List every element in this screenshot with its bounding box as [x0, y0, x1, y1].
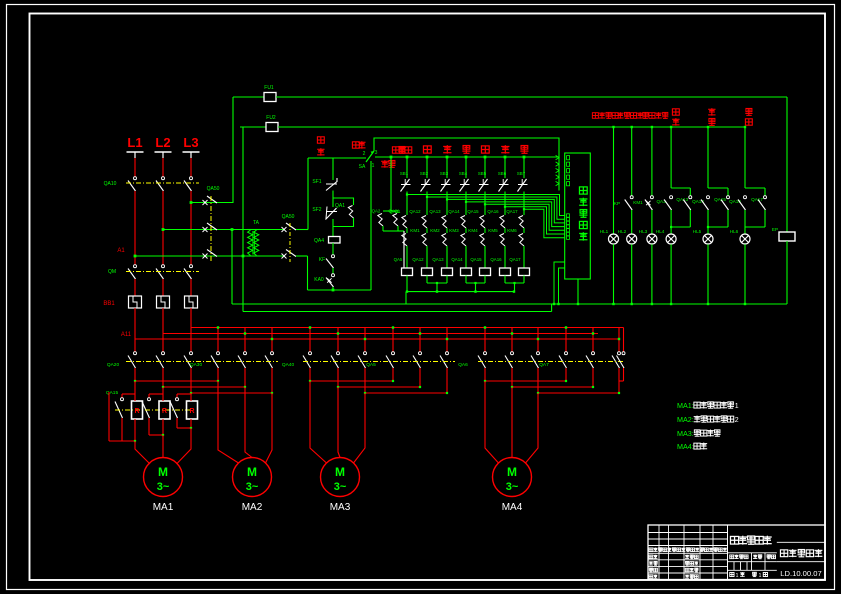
- svg-text:3~: 3~: [506, 481, 519, 493]
- wire MA4 feeds: [485, 381, 499, 463]
- receiver pin labels lower: [567, 214, 570, 217]
- svg-text:KM3: KM3: [449, 228, 459, 233]
- wire chain to SA common: [333, 289, 371, 291]
- svg-text:SA: SA: [359, 164, 366, 170]
- svg-text:EP: EP: [772, 227, 778, 232]
- label da-che: [392, 146, 406, 154]
- svg-text:QA16: QA16: [487, 209, 499, 214]
- node master col1 rail: [406, 156, 409, 159]
- contactor group links: [126, 361, 278, 363]
- label xiao che: [708, 108, 715, 116]
- wire right end branch: [623, 328, 625, 353]
- wire red bus1: [191, 327, 624, 329]
- node tap L1 green: [134, 255, 137, 258]
- title block drawing title: [777, 541, 825, 543]
- wire MA1 feeds: [135, 441, 150, 464]
- label zuo: [462, 146, 470, 154]
- wire to start-stop branch: [296, 229, 308, 231]
- switch QA50b pole2: [282, 254, 287, 259]
- label shang: [501, 145, 509, 153]
- wire red bus3: [135, 338, 619, 340]
- wire coils to bottom bus: [406, 276, 408, 292]
- lamp HL4 branch: [670, 126, 672, 128]
- svg-text:QA5: QA5: [394, 257, 403, 262]
- node rail junction: [557, 303, 559, 305]
- svg-text:L3: L3: [183, 135, 198, 150]
- label yao kong jie shou qi: [579, 187, 587, 241]
- lamp HL6 branch: [744, 126, 746, 128]
- title block left grid: [658, 525, 660, 580]
- wire top rail from FU1: [276, 96, 787, 98]
- switch QA50b link: [289, 223, 291, 262]
- node master col6 rail: [504, 156, 507, 159]
- node tap L2 green: [162, 228, 165, 231]
- switch QA50 pole1: [203, 200, 208, 205]
- wire rails to QA50b: [260, 229, 283, 231]
- receiver box: [565, 153, 591, 279]
- svg-text:3~: 3~: [157, 481, 170, 493]
- resistor R1: [132, 401, 143, 419]
- motor MA2: [233, 458, 272, 497]
- svg-text:M: M: [507, 465, 517, 479]
- svg-text:FU2: FU2: [266, 115, 276, 121]
- wire mesh G1-G2: [134, 375, 136, 381]
- svg-text:QA50: QA50: [282, 214, 295, 220]
- svg-text:FU1: FU1: [264, 85, 274, 91]
- switch QA50 pole2: [203, 227, 208, 232]
- svg-text:QA10: QA10: [104, 181, 117, 187]
- wire phases QA10 to QM: [134, 191, 136, 265]
- svg-text:TA: TA: [253, 220, 260, 226]
- svg-text:HL3: HL3: [639, 229, 648, 234]
- wire QM to BB1: [134, 279, 136, 296]
- svg-text:1: 1: [759, 573, 762, 579]
- switch QA50 pole3: [203, 254, 208, 259]
- motor MA4: [493, 458, 532, 497]
- contact lower row: [422, 234, 427, 247]
- receiver lower output pins: [554, 262, 565, 304]
- wire master rail: [375, 156, 559, 158]
- svg-text:QA15: QA15: [467, 209, 479, 214]
- title block mid cells: [728, 552, 777, 554]
- label dian-yuan-zhi-shi: [592, 112, 618, 119]
- contact lower row: [402, 234, 407, 247]
- svg-text:QM: QM: [108, 269, 116, 275]
- svg-text:KM2: KM2: [430, 228, 440, 233]
- svg-text:3~: 3~: [334, 481, 347, 493]
- svg-text:L1: L1: [127, 135, 142, 150]
- contact lower row: [442, 234, 447, 247]
- wire TA left drop2 to rail2: [242, 255, 245, 258]
- wire SF2 to coil: [332, 219, 334, 237]
- svg-text:QA13: QA13: [429, 209, 441, 214]
- svg-text:M: M: [247, 465, 257, 479]
- wire receiver bottom to rail: [577, 279, 579, 304]
- wire TA left drop to bottom rail: [231, 228, 234, 231]
- svg-text:QA7: QA7: [539, 362, 549, 368]
- lamp HL2 branch: [631, 126, 633, 128]
- wire chain bottom: [332, 287, 334, 290]
- wire columns to lower contacts: [406, 195, 408, 216]
- wire mesh G5-G6: [484, 375, 486, 381]
- svg-text:QA4: QA4: [314, 238, 324, 244]
- title block row labels: [649, 555, 658, 559]
- title block frame: [648, 525, 825, 580]
- svg-text:HL4: HL4: [656, 229, 665, 234]
- svg-text:QA17: QA17: [506, 209, 518, 214]
- resistor R3: [187, 401, 198, 419]
- wire L1 tap to transformer: [135, 255, 247, 257]
- svg-text:KF: KF: [319, 257, 325, 263]
- title block project name: [730, 536, 771, 545]
- svg-text:QA17: QA17: [751, 197, 763, 202]
- svg-text:QA20: QA20: [107, 362, 120, 368]
- node master col7 rail: [523, 156, 526, 159]
- svg-text:M: M: [158, 465, 168, 479]
- svg-text:QA15: QA15: [106, 390, 119, 396]
- wire mesh G3-G4: [309, 375, 311, 381]
- svg-text:L2: L2: [155, 135, 170, 150]
- resistor R2: [159, 401, 170, 419]
- contact lower row: [500, 234, 505, 247]
- label kai-ting: [317, 137, 324, 143]
- node master col2 rail: [426, 156, 429, 159]
- coil K5: [480, 268, 491, 276]
- svg-text:A1: A1: [117, 248, 125, 254]
- coil K6: [500, 268, 511, 276]
- label hu lu: [745, 108, 752, 115]
- svg-text:KA0: KA0: [314, 277, 324, 283]
- wire lamp bottom rail: [232, 303, 787, 305]
- label gong-zuo-zhi-shi: [617, 112, 643, 119]
- terminal: [155, 151, 172, 153]
- wire resistor columns: [134, 381, 136, 401]
- wire second rail from FU2: [278, 126, 745, 128]
- wire BB1 to buses: [134, 308, 136, 339]
- wire FU2 riser: [242, 127, 244, 312]
- receiver input ticks: [556, 155, 559, 159]
- wire KF to KA0: [332, 268, 334, 274]
- svg-text:HL6: HL6: [730, 229, 739, 234]
- terminal: [127, 151, 144, 153]
- svg-text:KM6: KM6: [507, 228, 517, 233]
- svg-text:QA15: QA15: [470, 257, 482, 262]
- label hou: [443, 145, 451, 153]
- title block header text: [649, 548, 727, 552]
- svg-text:KM4: KM4: [468, 228, 478, 233]
- selector SA: [352, 141, 365, 149]
- svg-text:3: 3: [375, 150, 378, 156]
- svg-text:1: 1: [736, 573, 739, 579]
- svg-text:QA16: QA16: [490, 257, 502, 262]
- receiver pin labels upper: [567, 156, 570, 160]
- contact lower row: [519, 234, 524, 247]
- lamp HL1 branch: [612, 126, 614, 128]
- wire master bottom bus: [406, 291, 514, 293]
- svg-text:R: R: [162, 408, 167, 415]
- wire bus taps: [134, 339, 136, 352]
- svg-text:KM1: KM1: [633, 200, 643, 205]
- label xia: [520, 146, 528, 154]
- device EP branch: [786, 97, 788, 232]
- label da che: [672, 109, 679, 115]
- svg-text:QA1: QA1: [335, 203, 345, 209]
- node master col4 rail: [465, 156, 468, 159]
- wire L3 tap to fuse riser: [191, 97, 233, 203]
- wire control bundle: [407, 195, 565, 216]
- svg-text:A11: A11: [121, 332, 132, 338]
- wire mesh right join: [619, 380, 624, 382]
- svg-text:HL1: HL1: [600, 229, 609, 234]
- node tap L3 green: [190, 201, 193, 204]
- node master col5 rail: [484, 156, 487, 159]
- lamp HL5 branch: [707, 126, 709, 128]
- wire MA3 feeds: [310, 381, 327, 463]
- svg-text:QA30: QA30: [190, 362, 203, 368]
- node master col3 rail: [446, 156, 449, 159]
- svg-text:3~: 3~: [246, 481, 259, 493]
- wire coil to KF: [332, 243, 334, 255]
- wire SA to master high: [374, 138, 559, 191]
- svg-text:QA14: QA14: [451, 257, 463, 262]
- svg-text:SF1: SF1: [312, 179, 321, 185]
- svg-text:HL5: HL5: [693, 229, 702, 234]
- svg-text:MA3: MA3: [330, 502, 351, 513]
- lamp HL3 branch: [651, 126, 653, 128]
- wire L2 tap to transformer: [163, 229, 247, 231]
- wire red bus2: [163, 333, 598, 335]
- wire white col1 lower: [403, 231, 405, 268]
- svg-text:QA13: QA13: [432, 257, 444, 262]
- svg-text:BB1: BB1: [103, 301, 115, 307]
- coil K2: [422, 268, 433, 276]
- svg-text:SF2: SF2: [312, 207, 321, 213]
- svg-text:KM5: KM5: [488, 228, 498, 233]
- wire chain top: [308, 157, 366, 159]
- svg-text:LD.10.00.07: LD.10.00.07: [780, 569, 821, 578]
- label gu-zhang-zhi-shi: [642, 112, 668, 119]
- svg-text:KM1: KM1: [410, 228, 420, 233]
- svg-text:MA1:: MA1:: [677, 401, 694, 410]
- switch QA50b pole1: [282, 227, 287, 232]
- wire rail2: [243, 311, 552, 313]
- svg-text:KP: KP: [614, 201, 620, 206]
- svg-text:QA50: QA50: [207, 186, 220, 192]
- svg-text:QA17: QA17: [509, 257, 521, 262]
- svg-text:QA15: QA15: [714, 197, 726, 202]
- terminal: [183, 151, 200, 153]
- contact lower row: [461, 234, 466, 247]
- svg-text:QA14: QA14: [448, 209, 460, 214]
- svg-text:QA12: QA12: [409, 209, 421, 214]
- svg-text:MA4: MA4: [502, 502, 523, 513]
- svg-text:R: R: [189, 408, 194, 415]
- coil K3: [442, 268, 453, 276]
- svg-text:MA4:: MA4:: [677, 442, 694, 451]
- svg-text:QA2: QA2: [372, 209, 381, 214]
- svg-text:R: R: [134, 408, 139, 415]
- svg-text:MA2: MA2: [242, 502, 263, 513]
- svg-text:QA6: QA6: [458, 362, 468, 368]
- svg-text:HL2: HL2: [618, 229, 627, 234]
- svg-text:MA2:: MA2:: [677, 415, 694, 424]
- svg-text:MA3:: MA3:: [677, 429, 694, 438]
- coil K7: [519, 268, 530, 276]
- svg-text:2: 2: [363, 151, 366, 157]
- label qian: [423, 146, 431, 153]
- motor MA1: [144, 458, 183, 497]
- svg-text:1: 1: [372, 163, 375, 169]
- wire MA2 feeds: [218, 381, 239, 463]
- coil K4: [461, 268, 472, 276]
- coil K1: [402, 268, 413, 276]
- contact lower row: [480, 234, 485, 247]
- svg-text:QA5: QA5: [366, 362, 376, 368]
- svg-text:QA13: QA13: [676, 197, 688, 202]
- wire rotor staircase: [109, 440, 135, 442]
- switch QA50 link: [210, 196, 212, 262]
- svg-text:1: 1: [735, 403, 739, 410]
- title block sheet text: [730, 573, 734, 577]
- wire L1 L2 L3 drops to QA10: [134, 158, 136, 177]
- svg-text:M: M: [335, 465, 345, 479]
- motor MA3: [321, 458, 360, 497]
- svg-text:QA40: QA40: [282, 362, 295, 368]
- svg-text:2: 2: [735, 417, 739, 424]
- label you: [481, 146, 489, 153]
- svg-text:QA12: QA12: [412, 257, 424, 262]
- svg-text:MA1: MA1: [153, 502, 174, 513]
